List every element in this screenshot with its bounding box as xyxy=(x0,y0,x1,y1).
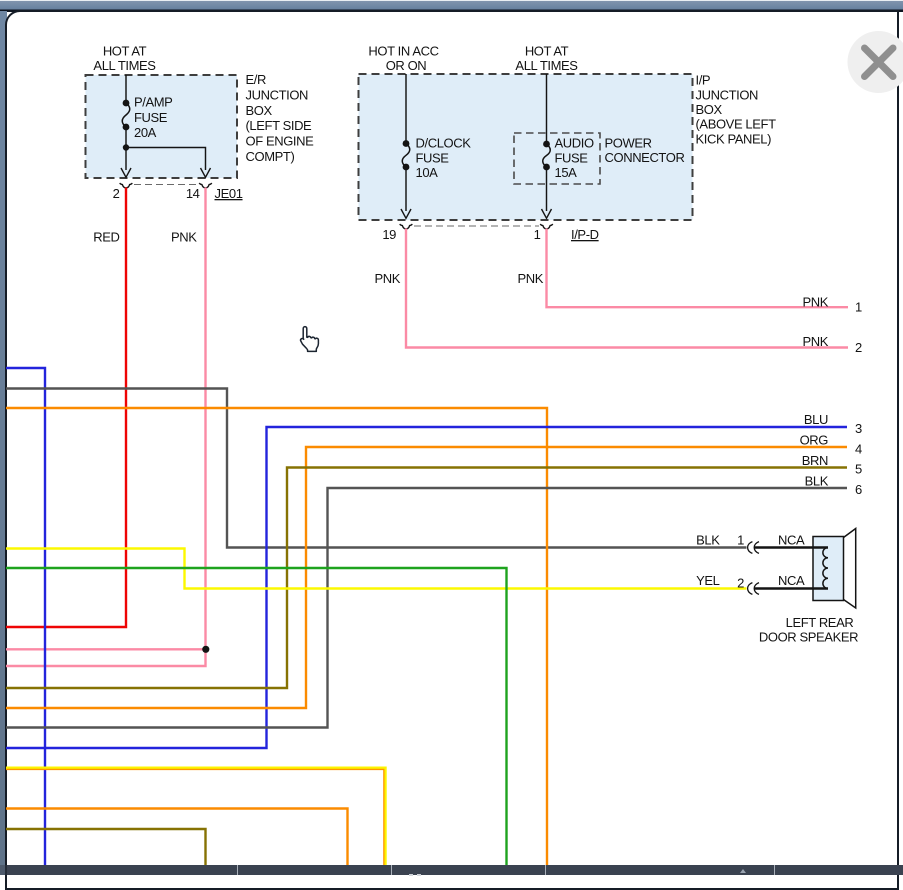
svg-text:BLK: BLK xyxy=(805,474,829,489)
wire: ACC feed into D/CLOCK fuse xyxy=(405,74,407,141)
connector notch pin 19 xyxy=(400,224,413,229)
arrow into pin 19 xyxy=(401,209,411,218)
svg-text:BOX: BOX xyxy=(696,102,723,117)
wire BLU upper left xyxy=(6,368,45,866)
svg-text:6: 6 xyxy=(855,482,862,497)
connector notch pin 2 xyxy=(120,183,133,188)
svg-text:BLU: BLU xyxy=(804,412,828,427)
svg-text:OR ON: OR ON xyxy=(386,58,427,73)
svg-text:AUDIO: AUDIO xyxy=(555,136,594,151)
svg-text:2: 2 xyxy=(113,186,120,201)
E/R junction box xyxy=(86,75,238,178)
fuse AUDIO 15A xyxy=(543,141,551,171)
wire NCA to speaker pin 1 xyxy=(754,546,828,548)
svg-text:FUSE: FUSE xyxy=(555,151,589,166)
svg-text:PNK: PNK xyxy=(374,271,400,286)
svg-text:D/CLOCK: D/CLOCK xyxy=(416,136,472,151)
wire BRN lower xyxy=(6,829,206,866)
wire ORG circuit 4 xyxy=(6,447,847,708)
svg-text:NCA: NCA xyxy=(778,573,805,588)
connector notch pin 14 xyxy=(199,183,212,188)
svg-text:1: 1 xyxy=(855,300,862,315)
wire BRN circuit 5 xyxy=(6,468,847,689)
svg-text:FUSE: FUSE xyxy=(416,151,450,166)
wire: battery feed into AUDIO fuse xyxy=(546,74,548,141)
svg-text:ORG: ORG xyxy=(800,433,829,448)
wire PNK circuit 1 from pin 1 xyxy=(547,229,849,308)
svg-text:5: 5 xyxy=(855,462,862,477)
inline connector pin 2 speaker xyxy=(748,583,753,595)
wire BLK circuit 6 xyxy=(6,488,847,728)
svg-text:1: 1 xyxy=(737,533,744,548)
wire PNK from pin 14 xyxy=(6,188,206,667)
svg-text:YEL: YEL xyxy=(696,573,720,588)
svg-text:I/P-D: I/P-D xyxy=(571,227,599,242)
wire ORG lower xyxy=(6,809,348,867)
junction node on PNK wire xyxy=(202,646,209,653)
svg-text:OF ENGINE: OF ENGINE xyxy=(246,134,315,149)
svg-text:2: 2 xyxy=(737,576,744,591)
wire GRN xyxy=(6,568,507,866)
svg-text:20A: 20A xyxy=(134,125,157,140)
svg-text:10A: 10A xyxy=(416,165,439,180)
svg-text:POWER: POWER xyxy=(605,136,652,151)
svg-text:PNK: PNK xyxy=(171,230,197,245)
svg-text:(ABOVE LEFT: (ABOVE LEFT xyxy=(696,117,777,132)
svg-text:BRN: BRN xyxy=(802,453,828,468)
connector I/P-D dashed strip xyxy=(414,225,539,227)
svg-text:4: 4 xyxy=(855,442,862,457)
svg-text:BLK: BLK xyxy=(696,533,720,548)
svg-text:DOOR SPEAKER: DOOR SPEAKER xyxy=(759,630,858,645)
wire: D/CLOCK fuse to pin 19 xyxy=(405,167,407,211)
svg-text:HOT AT: HOT AT xyxy=(525,44,569,59)
wire NCA to speaker pin 2 xyxy=(754,587,828,589)
svg-text:HOT IN ACC: HOT IN ACC xyxy=(368,44,438,59)
wire PNK branch at junction xyxy=(6,648,206,650)
svg-text:PNK: PNK xyxy=(517,271,543,286)
fuse D/CLOCK 10A xyxy=(402,140,410,170)
wire BLU circuit 3 xyxy=(6,427,847,748)
svg-text:LEFT REAR: LEFT REAR xyxy=(786,615,854,630)
svg-text:JUNCTION: JUNCTION xyxy=(246,88,309,103)
wire GRY to speaker BLK xyxy=(6,389,747,548)
wire: P/AMP fuse output to pin 2 xyxy=(125,127,127,170)
wire ORG long top xyxy=(6,408,547,866)
svg-text:(LEFT SIDE: (LEFT SIDE xyxy=(246,118,313,133)
svg-text:E/R: E/R xyxy=(246,72,266,87)
junction node in E/R box xyxy=(123,144,129,150)
arrow into pin 1 xyxy=(542,209,552,218)
svg-text:JUNCTION: JUNCTION xyxy=(696,88,759,103)
wire RED from pin 2 xyxy=(6,188,126,628)
wire YEL to speaker xyxy=(6,549,747,589)
svg-text:ALL TIMES: ALL TIMES xyxy=(93,58,156,73)
svg-text:PNK: PNK xyxy=(802,334,828,349)
svg-text:19: 19 xyxy=(382,227,396,242)
svg-text:15A: 15A xyxy=(555,165,578,180)
svg-text:P/AMP: P/AMP xyxy=(134,95,172,110)
svg-text:14: 14 xyxy=(186,186,200,201)
svg-text:CONNECTOR: CONNECTOR xyxy=(605,150,685,165)
svg-text:ALL TIMES: ALL TIMES xyxy=(515,58,578,73)
arrow into pin 14 xyxy=(201,168,211,177)
wire: branch to pin 14 xyxy=(126,148,206,171)
svg-text:2: 2 xyxy=(855,340,862,355)
connector JE01 dashed strip xyxy=(134,184,198,186)
speaker LEFT REAR DOOR: horn xyxy=(844,529,856,609)
speaker voice coil xyxy=(823,548,828,589)
wire YEL/ORN lower (orange tracer) xyxy=(6,769,384,866)
mouse cursor xyxy=(301,327,319,352)
I/P junction box xyxy=(359,74,693,220)
svg-text:I/P: I/P xyxy=(696,73,711,88)
svg-text:3: 3 xyxy=(855,421,862,436)
fuse P/AMP 20A xyxy=(122,100,130,131)
inline connector pin 1 speaker xyxy=(748,542,753,554)
connector notch pin 1 xyxy=(540,224,553,229)
speaker body xyxy=(813,537,844,601)
svg-text:1: 1 xyxy=(534,227,541,242)
power connector box xyxy=(514,133,600,184)
svg-text:RED: RED xyxy=(93,230,119,245)
close button xyxy=(848,31,903,93)
svg-text:BOX: BOX xyxy=(246,103,273,118)
wire: feed into P/AMP fuse xyxy=(125,75,127,100)
svg-text:PNK: PNK xyxy=(802,295,828,310)
svg-text:FUSE: FUSE xyxy=(134,110,168,125)
svg-text:COMPT): COMPT) xyxy=(246,149,295,164)
arrow into pin 2 xyxy=(121,168,131,177)
svg-text:KICK PANEL): KICK PANEL) xyxy=(696,132,772,147)
wire: AUDIO fuse to pin 1 xyxy=(546,167,548,211)
svg-text:JE01: JE01 xyxy=(215,186,243,201)
svg-text:HOT AT: HOT AT xyxy=(103,44,147,59)
svg-text:NCA: NCA xyxy=(778,533,805,548)
wire PNK circuit 2 from pin 19 xyxy=(406,229,848,348)
